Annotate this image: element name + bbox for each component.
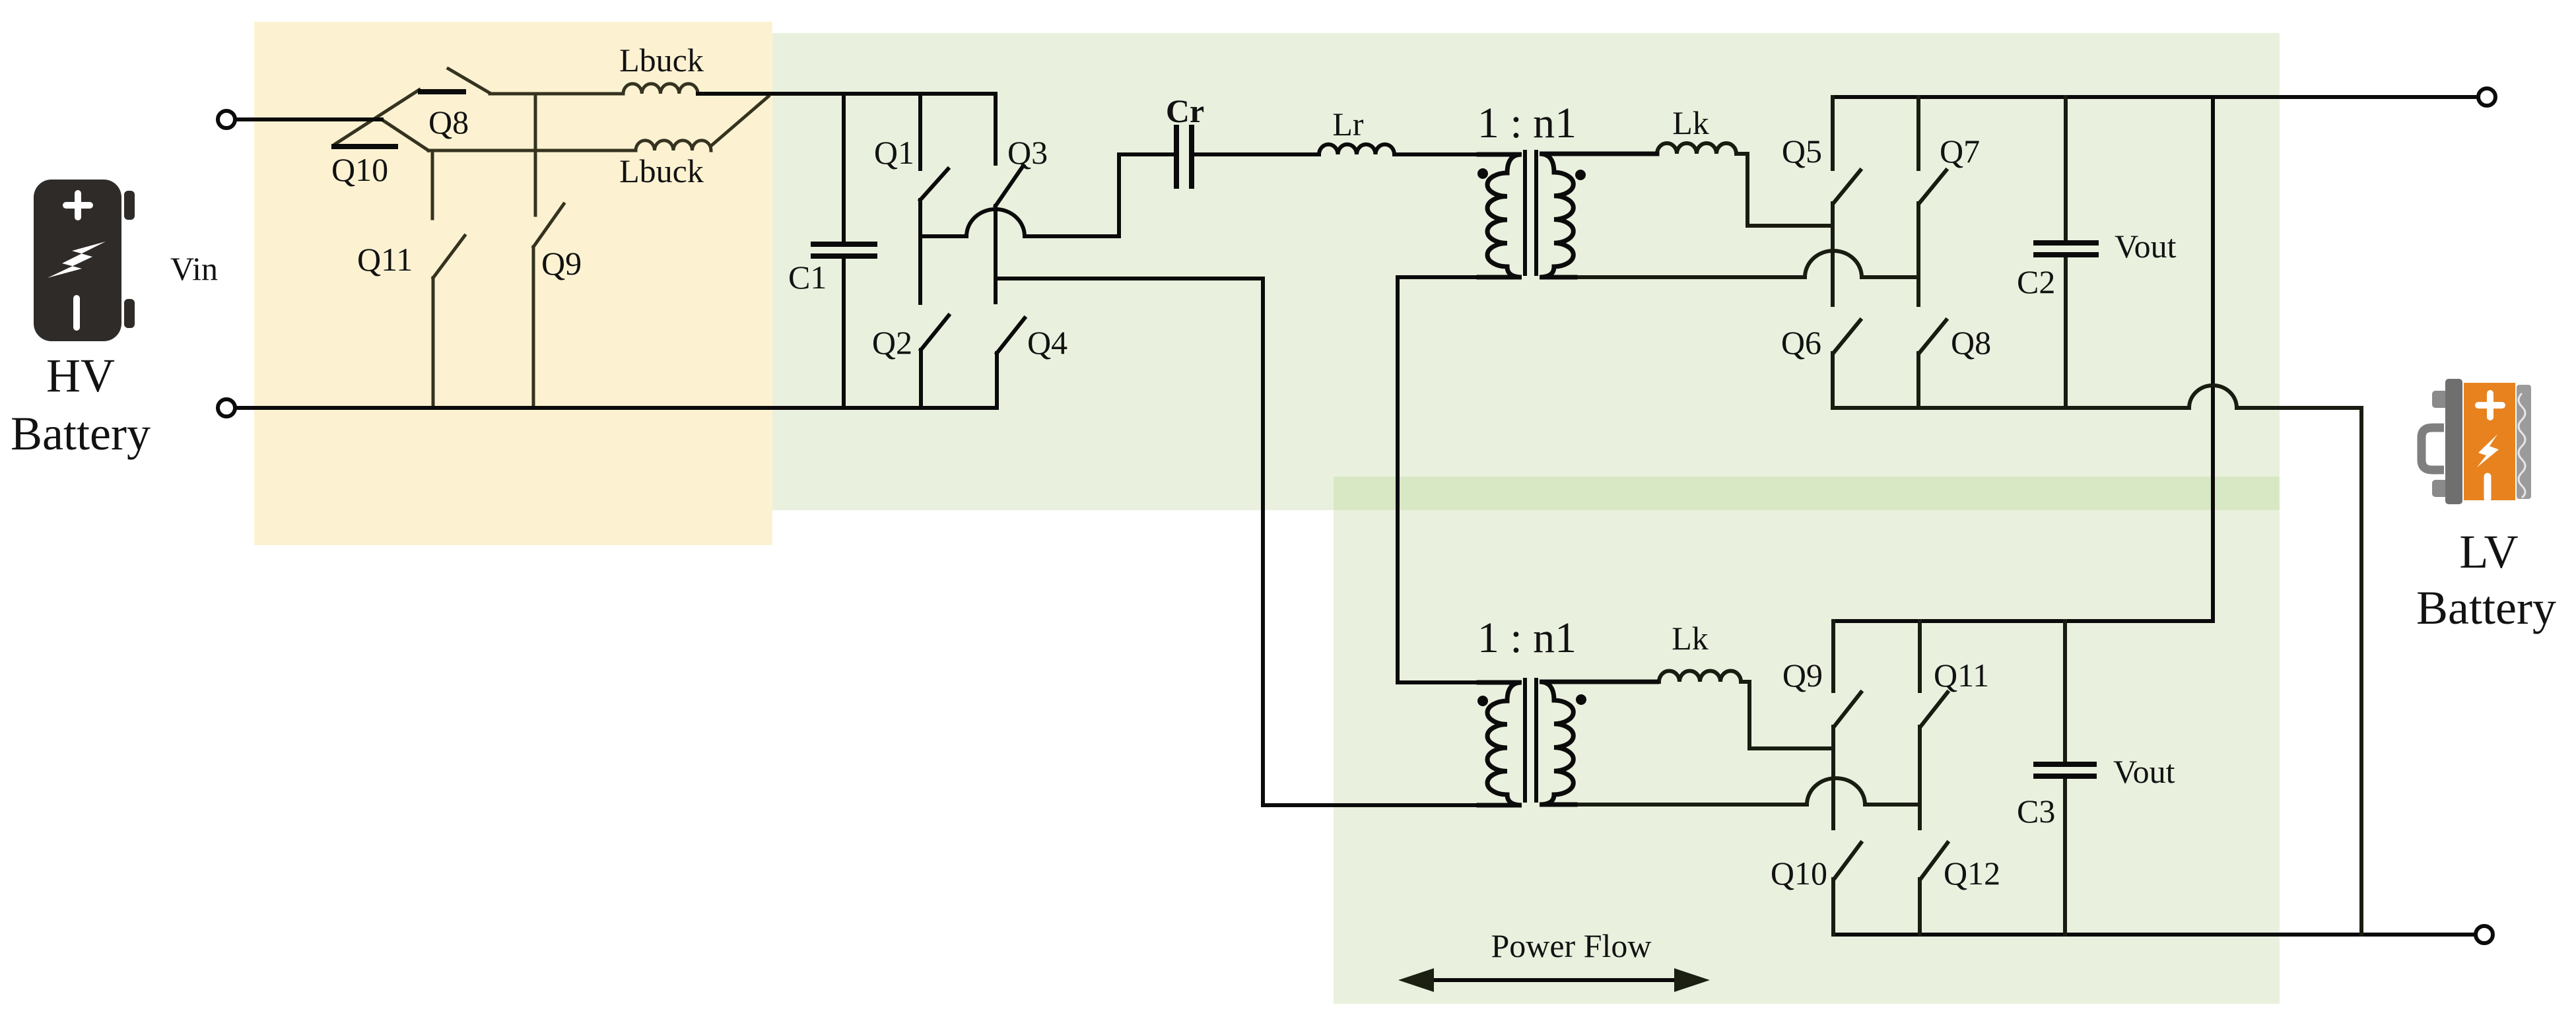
- svg-text:Cr: Cr: [1166, 92, 1204, 129]
- svg-text:Power Flow: Power Flow: [1491, 927, 1651, 964]
- svg-text:Lbuck: Lbuck: [619, 42, 704, 79]
- svg-text:Battery: Battery: [2416, 581, 2556, 634]
- svg-text:Battery: Battery: [11, 407, 151, 460]
- svg-text:Q7: Q7: [1940, 133, 1980, 170]
- svg-text:Lk: Lk: [1672, 620, 1709, 657]
- svg-text:Lr: Lr: [1332, 106, 1364, 143]
- svg-text:LV: LV: [2459, 525, 2518, 578]
- svg-text:Q5: Q5: [1782, 133, 1822, 170]
- svg-text:Q12: Q12: [1944, 855, 2000, 892]
- svg-text:C1: C1: [788, 259, 827, 296]
- svg-text:Q4: Q4: [1027, 324, 1068, 361]
- svg-text:Q9: Q9: [541, 245, 582, 282]
- svg-text:1 : n1: 1 : n1: [1477, 614, 1576, 662]
- svg-text:C3: C3: [2017, 793, 2055, 830]
- svg-text:Vout: Vout: [2113, 753, 2175, 790]
- svg-text:Q10: Q10: [1771, 855, 1827, 892]
- svg-text:Q2: Q2: [872, 324, 912, 361]
- svg-text:HV: HV: [46, 349, 115, 402]
- svg-text:Lk: Lk: [1672, 104, 1709, 141]
- svg-text:1 : n1: 1 : n1: [1477, 99, 1576, 147]
- svg-text:Q11: Q11: [357, 241, 413, 278]
- svg-text:Vin: Vin: [170, 250, 218, 287]
- svg-text:Q8: Q8: [1951, 324, 1991, 361]
- svg-text:Q6: Q6: [1781, 324, 1821, 361]
- svg-text:Q1: Q1: [874, 134, 914, 171]
- svg-text:Q8: Q8: [428, 104, 469, 141]
- svg-text:Q3: Q3: [1007, 134, 1048, 171]
- svg-text:Q9: Q9: [1782, 657, 1823, 694]
- svg-text:Q10: Q10: [331, 151, 388, 188]
- svg-text:Vout: Vout: [2115, 228, 2177, 265]
- svg-text:Q11: Q11: [1934, 657, 1989, 694]
- svg-text:C2: C2: [2017, 263, 2055, 300]
- svg-text:Lbuck: Lbuck: [619, 152, 704, 189]
